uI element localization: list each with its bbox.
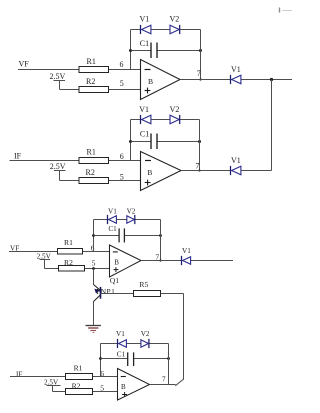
svg-text:V1: V1 [182, 247, 191, 255]
svg-text:B: B [148, 77, 153, 86]
wire feedback left vertical (stage 1) [130, 30, 132, 70]
transistor Q1 PNP1 (stage 3) [94, 285, 116, 302]
svg-text:B: B [114, 259, 119, 267]
svg-text:R1: R1 [74, 363, 83, 372]
wire op-amp output (stage 4) [150, 384, 176, 386]
svg-text:VF: VF [19, 60, 30, 69]
svg-text:V2: V2 [170, 105, 180, 114]
junction dot feedback-right / C1 (stage 3) [159, 234, 162, 237]
svg-text:Q1: Q1 [110, 276, 119, 285]
resistor R1 (stage 1) [79, 57, 109, 73]
junction dot feedback-right / C1 (stage 1) [199, 49, 202, 52]
wire diode row (stage 4) [101, 343, 169, 345]
resistor R2 (stage 3) [59, 258, 85, 271]
diode V1 feedback (stage 2) [141, 115, 151, 124]
capacitor C1 (stage 2) [131, 129, 200, 149]
wire feedback left vertical (stage 3) [93, 220, 95, 252]
op-amp B (stage 4) [118, 369, 150, 401]
diode V2 feedback (stage 4) [141, 339, 149, 348]
svg-text:2.5V: 2.5V [50, 72, 66, 81]
voltage source 2.5V (stage 2) [50, 162, 66, 180]
junction output/feedback (stage 1) [199, 78, 201, 80]
svg-text:R2: R2 [86, 77, 95, 86]
wire VF input to op-amp pin 6 (stage 3) [9, 251, 110, 253]
svg-text:V2: V2 [127, 208, 136, 216]
wire diode row (stage 2) [131, 119, 200, 121]
svg-text:7: 7 [162, 376, 166, 384]
wire R5 to stage 4 output (right and down) [161, 294, 184, 380]
wire op-amp output (stage 1) [180, 79, 292, 81]
svg-text:V1: V1 [140, 15, 150, 24]
wire output bus vertical to stage 2 [271, 80, 273, 171]
op-amp B (stage 1) [141, 60, 181, 100]
diode V2 feedback (stage 2) [170, 115, 180, 124]
diode V1 output (stage 1) [231, 75, 241, 84]
op-amp B (stage 2) [141, 152, 182, 191]
svg-text:6: 6 [120, 152, 124, 161]
resistor R2 (stage 4) [66, 381, 93, 394]
junction output/feedback (stage 2) [198, 169, 200, 171]
diode V1 output (stage 2) [231, 166, 241, 175]
junction dot feedback-left / C1 (stage 3) [92, 234, 95, 237]
svg-text:V1: V1 [231, 156, 241, 165]
svg-text:R1: R1 [87, 57, 96, 66]
svg-text:R1: R1 [64, 238, 73, 247]
svg-text:R1: R1 [87, 147, 96, 156]
resistor R2 (stage 2) [79, 168, 109, 184]
svg-text:C1: C1 [117, 350, 126, 358]
svg-text:5: 5 [92, 259, 96, 268]
wire feedback right vertical (stage 2) [199, 120, 201, 171]
capacitor C1 (stage 1) [131, 39, 201, 58]
wire op-amp output (stage 2) [181, 170, 272, 172]
diode V1 feedback (stage 3) [108, 215, 117, 224]
capacitor C1 (stage 3) [94, 225, 161, 242]
svg-text:R5: R5 [139, 280, 148, 289]
faint top-right mark [280, 8, 293, 13]
resistor R1 (stage 4) [66, 363, 93, 379]
svg-text:7: 7 [197, 69, 201, 78]
junction dot feedback-right / C1 (stage 2) [198, 140, 201, 143]
svg-text:V1: V1 [231, 65, 241, 74]
ground (stage 3) [86, 326, 101, 333]
svg-text:IF: IF [14, 152, 22, 161]
diode V1 output (stage 3) [182, 256, 191, 265]
svg-text:2.5V: 2.5V [50, 162, 66, 171]
svg-text:C1: C1 [140, 39, 149, 48]
svg-text:5: 5 [120, 79, 124, 88]
svg-text:R2: R2 [86, 168, 95, 177]
junction dot feedback-right / C1 (stage 4) [167, 357, 170, 360]
svg-text:V1: V1 [139, 105, 149, 114]
wire diode row (stage 1) [131, 29, 201, 31]
diode V2 feedback (stage 3) [127, 215, 135, 224]
capacitor C1 (stage 4) [101, 350, 169, 366]
diode V2 feedback (stage 1) [170, 25, 180, 34]
svg-text:5: 5 [120, 172, 124, 181]
svg-text:B: B [121, 383, 126, 391]
junction dot feedback-left / C1 (stage 4) [99, 357, 102, 360]
op-amp B (stage 3) [110, 245, 142, 277]
resistor R1 (stage 2) [79, 147, 109, 163]
wire VF input to op-amp pin 6 (stage 1) [18, 69, 141, 71]
junction dot pin 5 / Q1 (stage 3) [92, 267, 95, 270]
resistor R2 (stage 1) [79, 77, 109, 92]
diode V1 feedback (stage 1) [141, 25, 151, 34]
junction dot output bus (stage 1) [270, 78, 273, 81]
voltage source 2.5V (stage 1) [50, 72, 66, 90]
voltage source 2.5V (stage 4) [44, 379, 61, 392]
junction dot feedback-left / C1 (stage 2) [129, 140, 132, 143]
junction dot feedback-left / C1 (stage 1) [129, 49, 132, 52]
wire diode row (stage 3) [94, 219, 161, 221]
wire Q1 base to R5 [101, 293, 134, 295]
wire feedback left vertical (stage 4) [100, 344, 102, 377]
diode V1 feedback (stage 4) [118, 339, 127, 348]
svg-text:V2: V2 [141, 330, 150, 338]
svg-text:V2: V2 [170, 15, 180, 24]
wire 2.5V to op-amp pin 5 (stage 3) [45, 268, 110, 270]
resistor R1 (stage 3) [58, 238, 83, 254]
svg-text:IF: IF [16, 371, 22, 379]
voltage source 2.5V (stage 3) [37, 252, 52, 268]
wire op-amp output (stage 3) [141, 260, 233, 262]
svg-text:C1: C1 [108, 225, 117, 233]
wire pin 5 junction down to Q1 (stage 3) [93, 269, 95, 285]
svg-text:5: 5 [100, 384, 104, 393]
svg-text:B: B [147, 168, 152, 177]
svg-text:V1: V1 [116, 330, 125, 338]
svg-text:6: 6 [120, 60, 124, 69]
junction output/feedback (stage 3) [159, 259, 161, 261]
wire IF input to op-amp pin 6 (stage 4) [10, 376, 118, 378]
wire Q1 emitter to ground [93, 302, 95, 326]
svg-text:V1: V1 [108, 208, 117, 216]
svg-text:C1: C1 [140, 129, 149, 138]
svg-text:PNP1: PNP1 [96, 287, 115, 296]
wire feedback right vertical (stage 4) [168, 344, 170, 385]
svg-text:R2: R2 [72, 381, 81, 390]
wire diagonal connect to R5 drop (stage 4) [175, 379, 184, 386]
wire feedback right vertical (stage 3) [160, 220, 162, 261]
svg-text:R2: R2 [64, 258, 73, 267]
wire feedback right vertical (stage 1) [200, 30, 202, 80]
wire IF input to op-amp pin 6 (stage 2) [10, 160, 141, 162]
resistor R5 (stage 3) [134, 280, 161, 297]
wire 2.5V to op-amp pin 5 (stage 2) [60, 180, 141, 182]
wire 2.5V to op-amp pin 5 (stage 4) [53, 391, 118, 393]
wire 2.5V to op-amp pin 5 (stage 1) [60, 89, 141, 91]
wire feedback left vertical (stage 2) [130, 120, 132, 161]
svg-text:7: 7 [195, 162, 199, 171]
